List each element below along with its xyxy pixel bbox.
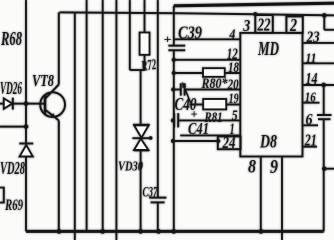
svg-text:R68: R68 [0,28,22,50]
svg-text:+: + [191,107,198,122]
svg-text:R72: R72 [140,57,158,75]
svg-text:MD: MD [257,38,279,60]
svg-text:21: 21 [304,131,317,150]
svg-text:23: 23 [306,29,320,46]
svg-text:VT8: VT8 [32,71,54,90]
svg-text:11: 11 [306,50,317,65]
svg-text:3: 3 [242,16,250,35]
svg-text:R80*: R80* [201,76,228,92]
svg-text:R69: R69 [4,197,23,214]
svg-text:+: + [164,32,172,46]
svg-text:9: 9 [270,157,278,178]
svg-text:C39: C39 [178,23,202,43]
svg-text:18: 18 [228,60,239,76]
svg-text:19: 19 [229,91,239,107]
svg-text:6: 6 [306,111,313,128]
svg-text:VD30: VD30 [118,159,143,174]
svg-text:R81: R81 [204,110,223,126]
svg-text:16: 16 [305,91,316,106]
svg-text:22: 22 [257,15,271,35]
svg-text:8: 8 [248,157,256,178]
svg-text:14: 14 [306,69,318,88]
svg-text:24: 24 [222,133,236,152]
svg-text:VD28: VD28 [0,158,25,178]
svg-text:4: 4 [229,28,236,43]
svg-text:2: 2 [289,15,297,35]
svg-text:C37: C37 [143,185,158,201]
svg-text:VD26: VD26 [0,78,22,98]
svg-text:D8: D8 [259,132,277,153]
